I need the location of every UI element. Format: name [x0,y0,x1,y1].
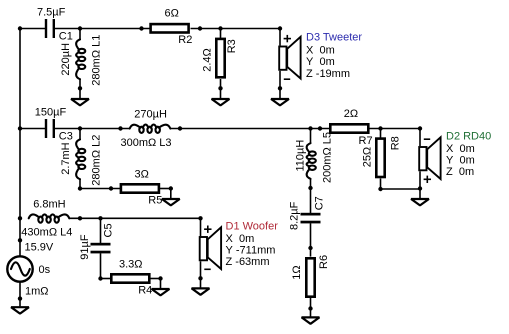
wire R5 to ground [158,188,171,190]
svg-text:91µF: 91µF [79,234,91,260]
node R2 right lead [198,26,202,30]
node R5 right lead [169,186,173,190]
wire R4 to ground [151,278,161,280]
svg-text:430mΩ L4: 430mΩ L4 [21,226,72,238]
wire C1 to R2 [54,28,151,30]
svg-text:X 0m: X 0m [226,233,255,245]
node R4 left lead [98,276,102,280]
svg-text:C1: C1 [59,31,73,43]
node L4 right lead [78,216,82,220]
node row3 tap [18,216,22,220]
svg-text:Y -711mm: Y -711mm [226,245,276,257]
wire L5 to C7 [310,189,312,214]
svg-text:Y 0m: Y 0m [446,155,475,167]
label D2 RD40 [446,130,491,178]
resistor R3 [202,29,239,89]
capacitor C5 [79,223,114,259]
svg-text:R3: R3 [226,39,238,53]
ground under V1 [11,299,29,314]
node D2 bottom [418,186,422,190]
node D3 top [278,26,282,30]
node R3 bottom [218,86,222,90]
wire row2 to C3 [20,128,46,130]
node R7 left lead [318,126,322,130]
label D1 Woofer [226,221,279,268]
node R8 bottom [378,187,382,191]
resistor R6 [291,248,330,309]
svg-text:200mΩ L5: 200mΩ L5 [321,132,333,183]
svg-text:X 0m: X 0m [306,45,335,57]
wire V1 to ground [19,282,21,299]
node L3 left lead [118,126,122,130]
wire C3 to L3 [54,128,130,130]
speaker D2 RD40 [419,129,440,189]
label V1 15.9V [25,241,54,253]
node D1 top [198,216,202,220]
resistor R7 [330,108,372,147]
node L1 bottom [78,86,82,90]
node L2 top [78,126,82,130]
svg-text:R8: R8 [389,136,401,150]
wire R7 to D2 [370,128,421,130]
svg-text:6.8mH: 6.8mH [33,198,65,210]
wire R2 to D3 [191,28,281,30]
svg-text:R7: R7 [359,135,373,147]
ground under D3 [271,88,289,105]
svg-text:300mΩ L3: 300mΩ L3 [121,137,172,149]
ground under L1 [71,88,89,105]
wire main input bus [19,29,21,257]
node row2 tap [18,126,22,130]
wire L3 to R7 [170,128,329,130]
svg-text:C3: C3 [59,131,73,143]
node L1 top [78,26,82,30]
wire C5 to R4 [100,253,102,278]
svg-text:2Ω: 2Ω [344,108,358,120]
wire C7 to R6 [310,223,312,248]
svg-text:25Ω: 25Ω [362,147,374,167]
wire L2 to R5 [80,188,120,190]
ground under R3 [212,88,230,105]
node R8 top [378,126,382,130]
label V1 1mΩ [25,286,49,298]
node L2 bottom [78,186,82,190]
speaker D1 Woofer [200,218,221,278]
svg-text:C5: C5 [102,223,114,237]
resistor R5 [121,168,162,206]
svg-text:X 0m: X 0m [446,143,475,155]
label D3 Tweeter [306,32,362,81]
node L3 right lead [178,126,182,130]
svg-text:R4: R4 [138,285,152,297]
svg-text:150µF: 150µF [35,107,67,119]
svg-text:R2: R2 [178,34,192,46]
svg-text:C7: C7 [313,196,325,210]
svg-text:8.2µF: 8.2µF [289,201,301,230]
resistor R2 [151,8,193,47]
node V1 top [18,238,22,242]
inductor L3 [121,108,172,149]
node D2 top [418,126,422,130]
wire R4 left lead [101,278,111,280]
resistor R4 [111,258,152,296]
node L5 bottom [308,186,312,190]
inductor L5 [295,129,334,189]
speaker D3 Tweeter [279,29,300,89]
wire C5 top lead [100,218,102,243]
svg-text:1mΩ: 1mΩ [25,286,49,298]
wire R8 to D2 bottom [381,188,421,190]
source V1 [7,256,32,281]
ground under R4 [152,279,170,296]
svg-text:6Ω: 6Ω [165,8,179,20]
ground under D2 [411,189,429,206]
capacitor C1 [37,7,73,43]
svg-text:220µH: 220µH [60,43,72,76]
svg-text:Z 0m: Z 0m [446,166,474,178]
svg-text:Y 0m: Y 0m [306,56,335,68]
node top-left corner [18,26,22,30]
node R2 left lead [139,26,143,30]
node R5 left lead [109,186,113,190]
svg-text:Z -63mm: Z -63mm [226,256,270,268]
node R3 top [218,26,222,30]
node R4 right lead [158,276,162,280]
capacitor C7 [289,196,326,230]
svg-text:D1 Woofer: D1 Woofer [226,221,279,233]
label V1 0s [39,264,51,276]
svg-text:D3 Tweeter: D3 Tweeter [306,32,362,44]
ground under R6 [302,309,320,324]
svg-text:15.9V: 15.9V [25,241,54,253]
svg-text:Z -19mm: Z -19mm [306,68,350,80]
inductor L2 [60,129,102,189]
node L5 top [308,126,312,130]
svg-text:0s: 0s [39,264,51,276]
svg-text:2.4Ω: 2.4Ω [202,48,214,72]
node V1 bottom [18,296,22,300]
svg-text:D2 RD40: D2 RD40 [446,130,491,142]
inductor L4 [21,198,72,238]
svg-text:3.3Ω: 3.3Ω [119,258,143,270]
svg-text:110µH: 110µH [295,140,307,172]
resistor R8 [362,129,402,190]
svg-text:280mΩ L1: 280mΩ L1 [91,35,103,86]
node D1 bottom [198,276,202,280]
node R6 bottom [308,306,312,310]
svg-text:R5: R5 [148,195,162,207]
svg-text:R6: R6 [318,255,330,269]
node D3 bottom [278,86,282,90]
wire row1 to C1 [20,28,46,30]
node C5 top [98,216,102,220]
svg-text:2.7mH: 2.7mH [60,142,72,174]
wire L4 to D1 [69,217,200,219]
svg-text:1Ω: 1Ω [291,265,303,279]
svg-text:280mΩ L2: 280mΩ L2 [91,135,103,186]
ground under D1 [192,278,210,295]
svg-text:270µH: 270µH [134,108,167,120]
svg-text:3Ω: 3Ω [135,168,149,180]
node R6 top [308,246,312,250]
capacitor C3 [35,107,73,143]
ground under R5 [162,189,180,206]
svg-text:7.5µF: 7.5µF [37,7,66,19]
inductor L1 [60,29,102,89]
